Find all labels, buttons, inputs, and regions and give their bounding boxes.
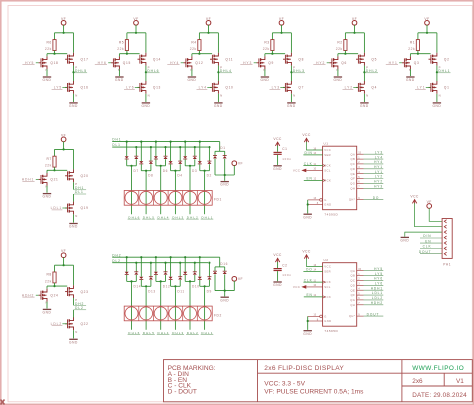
- wire source Q7 to ground: [290, 94, 292, 102]
- transistor Q19: [65, 202, 73, 215]
- junction VF node: [207, 32, 209, 34]
- supply VCC U2: [302, 250, 311, 259]
- svg-text:R1: R1: [410, 40, 415, 44]
- wire R2 to gate node: [344, 51, 346, 54]
- diode D8: [139, 161, 143, 164]
- node LDL2: [51, 322, 68, 326]
- wire DH1 to clamp: [219, 142, 221, 152]
- svg-text:DHL5: DHL5: [143, 215, 155, 219]
- node DIN PH1: [420, 234, 442, 238]
- wire to disc 5: [189, 166, 191, 214]
- wire VF horizontal: [345, 32, 364, 34]
- wire VF horizontal: [199, 32, 218, 34]
- junction clamp: [224, 290, 226, 292]
- wire clamp down: [214, 274, 216, 290]
- svg-text:DH2: DH2: [112, 253, 121, 257]
- junction on DL1: [164, 146, 166, 148]
- svg-text:22k: 22k: [117, 47, 124, 51]
- supply VF (R1 cell): [424, 17, 429, 25]
- disc 2 of FD1: [140, 191, 153, 204]
- pin G U2: [308, 315, 323, 318]
- wire DL1 to diode col4: [179, 147, 181, 161]
- svg-text:D7: D7: [134, 169, 139, 173]
- svg-text:Q4: Q4: [371, 86, 377, 90]
- svg-text:DO: DO: [306, 268, 313, 272]
- diode D2: [198, 161, 202, 164]
- wire C1 to ground: [277, 155, 279, 165]
- svg-text:Q11: Q11: [225, 57, 233, 61]
- node HY6: [95, 61, 111, 65]
- svg-text:D14: D14: [134, 285, 142, 289]
- wire DL2 to diode col5: [194, 263, 196, 272]
- wire source Q1 to ground: [436, 94, 438, 102]
- node HY4: [357, 160, 384, 164]
- wire diode bottoms: [155, 275, 157, 282]
- node LY6: [357, 282, 384, 286]
- svg-text:QA: QA: [351, 269, 356, 273]
- svg-text:HY5: HY5: [25, 61, 34, 65]
- node CLK: [303, 278, 322, 282]
- svg-text:VF: VF: [279, 17, 284, 21]
- wire drain Q12: [191, 54, 193, 57]
- node DHL4: [219, 69, 232, 73]
- transistor Q5: [356, 53, 364, 66]
- wire DH1 line: [112, 141, 220, 143]
- junction VF node: [280, 32, 282, 34]
- svg-text:R3: R3: [264, 40, 269, 44]
- svg-text:GND: GND: [69, 340, 78, 344]
- wire to disc 4: [174, 171, 176, 215]
- wire DL2 to diode col3: [165, 263, 167, 272]
- junction VF node: [353, 32, 355, 34]
- junction gate node: [271, 53, 273, 55]
- wire DH2 to diode col5: [184, 257, 186, 272]
- supply VCC arrow SCL U1: [293, 169, 323, 173]
- supply VF PH1: [427, 200, 432, 208]
- diode D3: [183, 156, 187, 159]
- svg-text:QA: QA: [351, 152, 356, 156]
- svg-text:GND: GND: [303, 215, 312, 219]
- wire VCC to C1: [277, 146, 279, 152]
- junction node DHL3: [290, 71, 292, 73]
- junction GND U2: [307, 320, 309, 322]
- wire G-GND U2: [307, 316, 309, 330]
- transistor Q9: [257, 56, 265, 69]
- wire diode bottoms: [155, 159, 157, 166]
- wire source Q22 to ground: [73, 330, 75, 338]
- svg-text:VF: VF: [424, 17, 429, 21]
- svg-text:DHL6: DHL6: [128, 215, 140, 219]
- wire diode bottoms: [140, 280, 142, 287]
- junction node DHL6: [145, 71, 147, 73]
- wire diode bottoms: [184, 159, 186, 166]
- junction VF node: [63, 32, 65, 34]
- svg-text:DHL3: DHL3: [172, 215, 184, 219]
- svg-text:Q18: Q18: [50, 61, 58, 65]
- svg-text:DO: DO: [373, 196, 380, 200]
- wire DL1 to diode col6: [208, 147, 210, 161]
- wire drain Q24: [46, 286, 48, 289]
- wire to disc 2: [145, 171, 147, 215]
- wire GND to PH1: [405, 232, 442, 237]
- svg-text:HY1: HY1: [374, 165, 383, 169]
- wire VF to Q23: [73, 265, 75, 285]
- junction on DH2: [155, 256, 157, 258]
- wire drain Q18: [46, 54, 48, 57]
- svg-text:QG: QG: [350, 182, 355, 186]
- junction diode bracket: [189, 280, 191, 282]
- svg-text:QC: QC: [350, 279, 355, 283]
- disc 6 of FD2: [198, 307, 211, 320]
- wire DH2 to diode col1: [126, 257, 128, 272]
- svg-text:Q10: Q10: [225, 86, 233, 90]
- ground under Q4: [360, 103, 369, 108]
- svg-text:GND: GND: [432, 104, 441, 108]
- supply VF (R2 cell): [352, 17, 357, 25]
- svg-text:R6: R6: [46, 40, 51, 44]
- diode D7: [125, 156, 129, 159]
- svg-text:N: N: [366, 94, 368, 98]
- svg-text:N: N: [75, 214, 77, 218]
- junction diode bracket: [145, 285, 147, 287]
- svg-text:DHL3: DHL3: [172, 331, 184, 335]
- node LY2: [357, 175, 384, 179]
- resistor R6 22k: [45, 40, 56, 51]
- wire drain Q5 to node: [363, 66, 365, 73]
- svg-text:Q14: Q14: [153, 57, 161, 61]
- svg-text:Q23: Q23: [81, 290, 89, 294]
- wire to resistor R7: [54, 149, 56, 156]
- wire DH1 to diode col2: [140, 142, 142, 162]
- junction gate node: [53, 169, 55, 171]
- ground under Q24: [43, 309, 52, 314]
- svg-text:VCC: VCC: [410, 194, 419, 198]
- junction VF node: [426, 32, 428, 34]
- svg-text:PH1: PH1: [443, 263, 451, 267]
- transistor Q2: [429, 53, 437, 66]
- svg-text:V1: V1: [456, 378, 464, 385]
- diode pair D12b: [164, 272, 168, 275]
- svg-text:D13: D13: [148, 289, 156, 293]
- svg-text:LY1: LY1: [417, 86, 425, 90]
- node HDH1: [22, 178, 39, 182]
- wire source Q16 to ground: [73, 94, 75, 102]
- wire to resistor R4: [198, 33, 200, 40]
- title text PCB MARKING: [168, 365, 216, 396]
- wire VCC to PH1: [415, 203, 443, 227]
- wire source Q21 to ground: [46, 186, 48, 193]
- diode pair D13b: [149, 277, 153, 280]
- svg-text:D2: D2: [207, 174, 212, 178]
- transistor Q13: [138, 81, 146, 94]
- node HDH2: [357, 301, 384, 305]
- wire to disc 1: [131, 166, 133, 214]
- ground under Q1: [432, 103, 441, 108]
- junction on DL1: [179, 146, 181, 148]
- wire diode bottoms: [170, 280, 172, 287]
- junction on DL2: [135, 262, 137, 264]
- svg-text:VF: VF: [61, 133, 66, 137]
- svg-text:FD1: FD1: [214, 198, 222, 202]
- ground under Q21: [43, 194, 52, 199]
- svg-text:QD: QD: [350, 167, 355, 171]
- wire R7 to gate node: [54, 167, 56, 170]
- svg-text:GND: GND: [273, 283, 282, 287]
- node DHL3: [292, 69, 305, 73]
- node HY2: [357, 180, 384, 184]
- wire gate line: [265, 53, 285, 55]
- wire diode bottoms: [184, 275, 186, 282]
- junction on DL2: [150, 262, 152, 264]
- svg-text:Q2: Q2: [444, 57, 450, 61]
- svg-text:DHL4: DHL4: [158, 215, 170, 219]
- svg-text:EN: EN: [306, 177, 312, 181]
- resistor R3 22k: [263, 40, 274, 51]
- svg-text:DHL3: DHL3: [293, 69, 305, 73]
- wire DH1 to diode col6: [199, 142, 201, 162]
- pin GND U2: [308, 320, 323, 322]
- op-amp U1 74595 shift register: [323, 142, 357, 217]
- supply VF (R3 cell): [279, 17, 284, 25]
- wire R5 to gate node: [126, 51, 128, 54]
- resistor R5 22k: [117, 40, 128, 51]
- wire VF down: [208, 25, 210, 33]
- transistor Q1: [429, 81, 437, 94]
- svg-text:GND: GND: [115, 78, 124, 82]
- pin names U1: [324, 148, 355, 207]
- svg-text:GND: GND: [69, 104, 78, 108]
- svg-text:LY4: LY4: [375, 155, 383, 159]
- ground under Q15: [115, 77, 124, 82]
- svg-text:C2: C2: [282, 263, 287, 267]
- wire gate line: [47, 53, 67, 55]
- junction GND U1: [307, 203, 309, 205]
- wire to resistor R6: [54, 33, 56, 40]
- svg-text:HY6: HY6: [374, 277, 383, 281]
- transistor Q17: [65, 53, 73, 66]
- junction gate node: [53, 285, 55, 287]
- node LY1: [357, 170, 384, 174]
- svg-text:DHL4: DHL4: [220, 69, 232, 73]
- wire source Q12 to ground: [191, 69, 193, 76]
- svg-text:U2: U2: [324, 258, 329, 262]
- diode pair D10b: [193, 272, 197, 275]
- svg-text:CLK: CLK: [304, 162, 313, 166]
- node LY6: [124, 86, 140, 90]
- wire DH1 to diode col1: [126, 142, 128, 157]
- wire drain Q15: [118, 54, 120, 57]
- node DO: [303, 268, 322, 272]
- transistor Q12: [184, 56, 192, 69]
- junction gate node: [417, 53, 419, 55]
- node DHL5: [142, 331, 155, 335]
- svg-text:2x6: 2x6: [412, 378, 423, 385]
- svg-text:D9: D9: [207, 289, 212, 293]
- wire to disc 3: [160, 166, 162, 214]
- ground clamp: [220, 182, 229, 187]
- wire node to Q7: [290, 72, 292, 81]
- pin GND U1: [308, 204, 323, 206]
- svg-text:GND: GND: [220, 183, 229, 187]
- ground under Q12: [187, 77, 196, 82]
- svg-text:100n: 100n: [282, 273, 292, 277]
- transistor Q23: [65, 285, 73, 298]
- svg-text:D6: D6: [163, 169, 168, 173]
- diode D6: [154, 156, 158, 159]
- svg-text:D16: D16: [220, 262, 228, 266]
- svg-text:VCC: VCC: [302, 133, 311, 137]
- node LDL2: [357, 296, 384, 300]
- junction on DH1: [199, 141, 201, 143]
- supply VCC arrow SCL U2: [293, 285, 323, 289]
- svg-text:HY3: HY3: [374, 185, 383, 189]
- transistor Q20: [65, 169, 73, 182]
- supply VCC C1: [273, 137, 282, 146]
- svg-text:D1: D1: [220, 146, 225, 150]
- svg-text:QB: QB: [351, 274, 356, 278]
- wire diode bottoms: [140, 164, 142, 171]
- diode D10: [183, 272, 187, 275]
- node HY4: [167, 61, 183, 65]
- svg-text:G: G: [324, 315, 327, 319]
- wire DL1 to diode col1: [135, 147, 137, 156]
- node LDL1: [357, 291, 384, 295]
- wire VF to PH1: [429, 208, 442, 221]
- svg-text:Q24: Q24: [50, 293, 58, 297]
- wire VF to Q2: [436, 33, 438, 53]
- node DIN: [303, 151, 322, 155]
- node CLK: [303, 162, 322, 166]
- wire VF clamp down: [233, 165, 235, 175]
- wire C2 to ground: [277, 271, 279, 281]
- diode D12: [154, 272, 158, 275]
- node DHL1: [438, 69, 451, 73]
- wire to disc 2: [145, 286, 147, 330]
- svg-text:Q6: Q6: [341, 61, 347, 65]
- svg-text:HY2: HY2: [316, 61, 325, 65]
- wire VF clamp down: [233, 281, 235, 291]
- node LY1: [415, 86, 431, 90]
- svg-text:DHL4: DHL4: [158, 331, 170, 335]
- junction on DL2: [179, 262, 181, 264]
- svg-text:D3: D3: [192, 169, 197, 173]
- wire source Q4 to ground: [363, 94, 365, 102]
- svg-text:Q19: Q19: [81, 206, 89, 210]
- wire DH2 to diode col2: [140, 257, 142, 277]
- svg-text:GND: GND: [69, 225, 78, 229]
- wire drain Q17 to node: [73, 66, 75, 73]
- svg-text:DATE: 29.08.2024: DATE: 29.08.2024: [412, 392, 467, 399]
- supply VCC U1: [302, 133, 311, 142]
- wire VF to Q17: [73, 33, 75, 53]
- svg-text:R2: R2: [337, 40, 342, 44]
- wire node to Q10: [217, 72, 219, 81]
- wire DH2 to clamp: [219, 257, 221, 267]
- ground under Q10: [214, 103, 223, 108]
- svg-text:2x6 FLIP-DISC DISPLAY: 2x6 FLIP-DISC DISPLAY: [264, 365, 344, 372]
- wire diode bottoms: [199, 280, 201, 287]
- svg-text:DL1: DL1: [112, 143, 121, 147]
- wire R6 to gate node: [54, 51, 56, 54]
- wire node to Q16: [73, 72, 75, 81]
- node LY2: [343, 86, 359, 90]
- transistor Q24: [39, 289, 47, 302]
- svg-text:VF: VF: [427, 200, 432, 204]
- svg-text:GND: GND: [324, 319, 331, 323]
- clock wedge SCK U1: [323, 164, 325, 167]
- svg-text:GND: GND: [287, 104, 296, 108]
- wire VF down: [426, 25, 428, 33]
- junction gate node: [53, 53, 55, 55]
- junction on DL1: [194, 146, 196, 148]
- title block border: [164, 360, 473, 402]
- junction diode bracket: [130, 280, 132, 282]
- junction diode bracket: [174, 285, 176, 287]
- svg-text:SCL: SCL: [324, 169, 331, 173]
- supply VF (R5 cell): [133, 17, 138, 25]
- node DHL5: [74, 69, 87, 73]
- svg-text:GND: GND: [43, 78, 52, 82]
- svg-text:FD2: FD2: [214, 313, 222, 317]
- svg-text:D - DOUT: D - DOUT: [168, 389, 197, 396]
- wire diode bottoms: [170, 164, 172, 171]
- node LY4: [357, 155, 384, 159]
- wire clamp bracket: [215, 150, 225, 152]
- node LY3: [270, 86, 286, 90]
- wire R1 to gate node: [417, 51, 419, 54]
- node EN PH1: [420, 239, 442, 243]
- svg-text:VCC: VCC: [293, 169, 301, 173]
- node DHL4: [157, 331, 170, 335]
- node DHL2: [186, 331, 199, 335]
- supply VF (R7 cell): [61, 133, 66, 141]
- wire to resistor R8: [54, 265, 56, 272]
- svg-text:GND: GND: [214, 104, 223, 108]
- supply VCC PH1: [410, 194, 419, 203]
- disc 2 of FD2: [140, 307, 153, 320]
- diode D14: [125, 272, 129, 275]
- wire source Q15 to ground: [118, 69, 120, 76]
- svg-text:DL1: DL1: [75, 190, 84, 194]
- svg-text:QF: QF: [351, 177, 356, 181]
- disc 1 of FD2: [125, 307, 138, 320]
- wire gate line: [410, 53, 430, 55]
- wire VF horizontal: [418, 32, 437, 34]
- wire drain Q8 to node: [290, 66, 292, 73]
- svg-text:N: N: [439, 94, 441, 98]
- svg-text:WWW.FLIPO.IO: WWW.FLIPO.IO: [412, 365, 464, 372]
- wire drain Q9: [264, 54, 266, 57]
- supply VF clamp: [232, 161, 243, 166]
- svg-text:DH1: DH1: [112, 138, 121, 142]
- wire gate line: [47, 169, 67, 171]
- op-amp U2 74595 shift register: [323, 258, 357, 333]
- disc 5 of FD2: [184, 307, 197, 320]
- connector PH1: [442, 219, 452, 267]
- svg-text:QF: QF: [351, 293, 356, 297]
- svg-text:QB: QB: [351, 157, 356, 161]
- svg-text:HY4: HY4: [170, 61, 179, 65]
- disc 4 of FD2: [169, 307, 182, 320]
- transistor Q4: [356, 81, 364, 94]
- svg-text:DOUT: DOUT: [419, 250, 432, 254]
- wire DH1 to diode col3: [155, 142, 157, 157]
- svg-text:VCC: VCC: [293, 285, 301, 289]
- svg-text:22k: 22k: [45, 164, 52, 168]
- wire clamp to ground: [224, 175, 226, 181]
- svg-text:VF: VF: [352, 17, 357, 21]
- diode pair D7b: [134, 156, 138, 159]
